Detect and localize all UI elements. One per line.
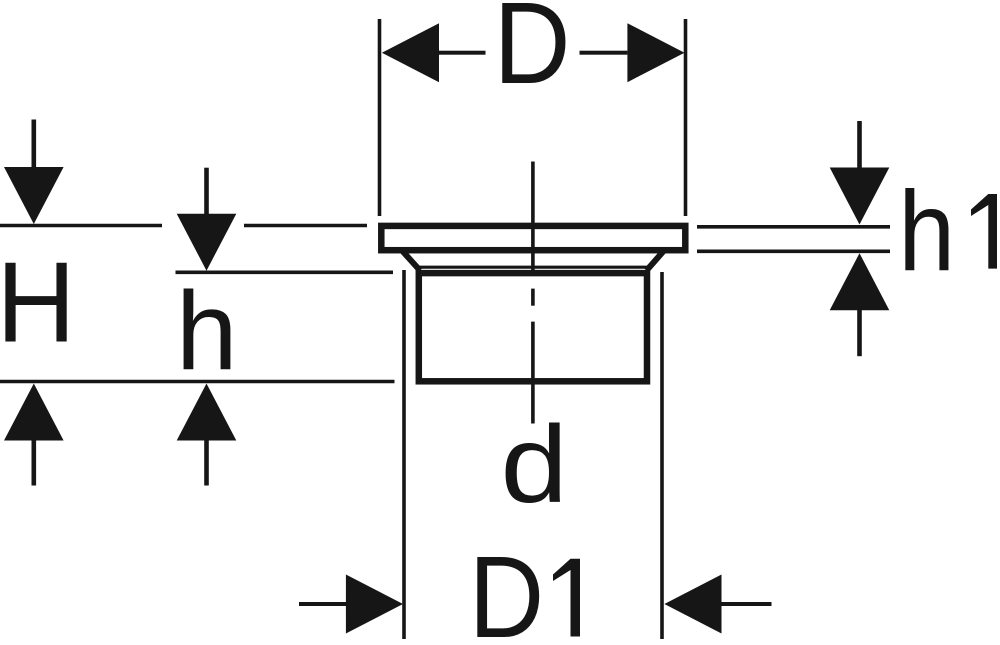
arrow H up bbox=[4, 384, 64, 486]
svg-text:h: h bbox=[176, 269, 238, 393]
flange (top plate) outline bbox=[381, 226, 685, 250]
svg-text:H: H bbox=[0, 239, 76, 366]
label D1 bbox=[469, 533, 580, 645]
label h1 bbox=[898, 167, 997, 294]
h1 extension line top bbox=[697, 225, 890, 229]
D1 extension line right bbox=[660, 272, 664, 639]
arrow h up bbox=[177, 384, 237, 486]
arrow D left bbox=[382, 23, 486, 82]
taper right slant bbox=[647, 250, 665, 271]
body (sleeve) outline bbox=[419, 273, 647, 381]
h1 extension line bottom bbox=[697, 250, 890, 254]
dimension H top reference line (left segment) bbox=[0, 224, 162, 228]
svg-text:d: d bbox=[501, 402, 568, 526]
dimension D extension line left bbox=[378, 19, 382, 216]
arrow D right bbox=[580, 23, 685, 82]
arrow h1 down bbox=[830, 121, 890, 225]
dimension h top reference line bbox=[176, 270, 394, 274]
arrow D1 right bbox=[664, 575, 771, 634]
svg-text:D: D bbox=[493, 0, 570, 108]
D1 extension line left bbox=[402, 270, 406, 639]
taper left slant bbox=[402, 250, 421, 271]
centerline (dash-dot) bbox=[531, 162, 535, 424]
dimension H/h bottom reference line bbox=[0, 380, 395, 384]
arrow h down bbox=[177, 168, 237, 271]
taper shoulder line bbox=[416, 266, 650, 269]
arrow D1 left bbox=[299, 575, 403, 634]
arrow H down bbox=[4, 120, 64, 225]
dimension H top reference line (right segment) bbox=[244, 224, 367, 228]
svg-text:D: D bbox=[469, 533, 544, 645]
dimension D extension line right bbox=[684, 19, 688, 216]
svg-text:h: h bbox=[898, 167, 955, 294]
arrow h1 up bbox=[830, 253, 890, 356]
